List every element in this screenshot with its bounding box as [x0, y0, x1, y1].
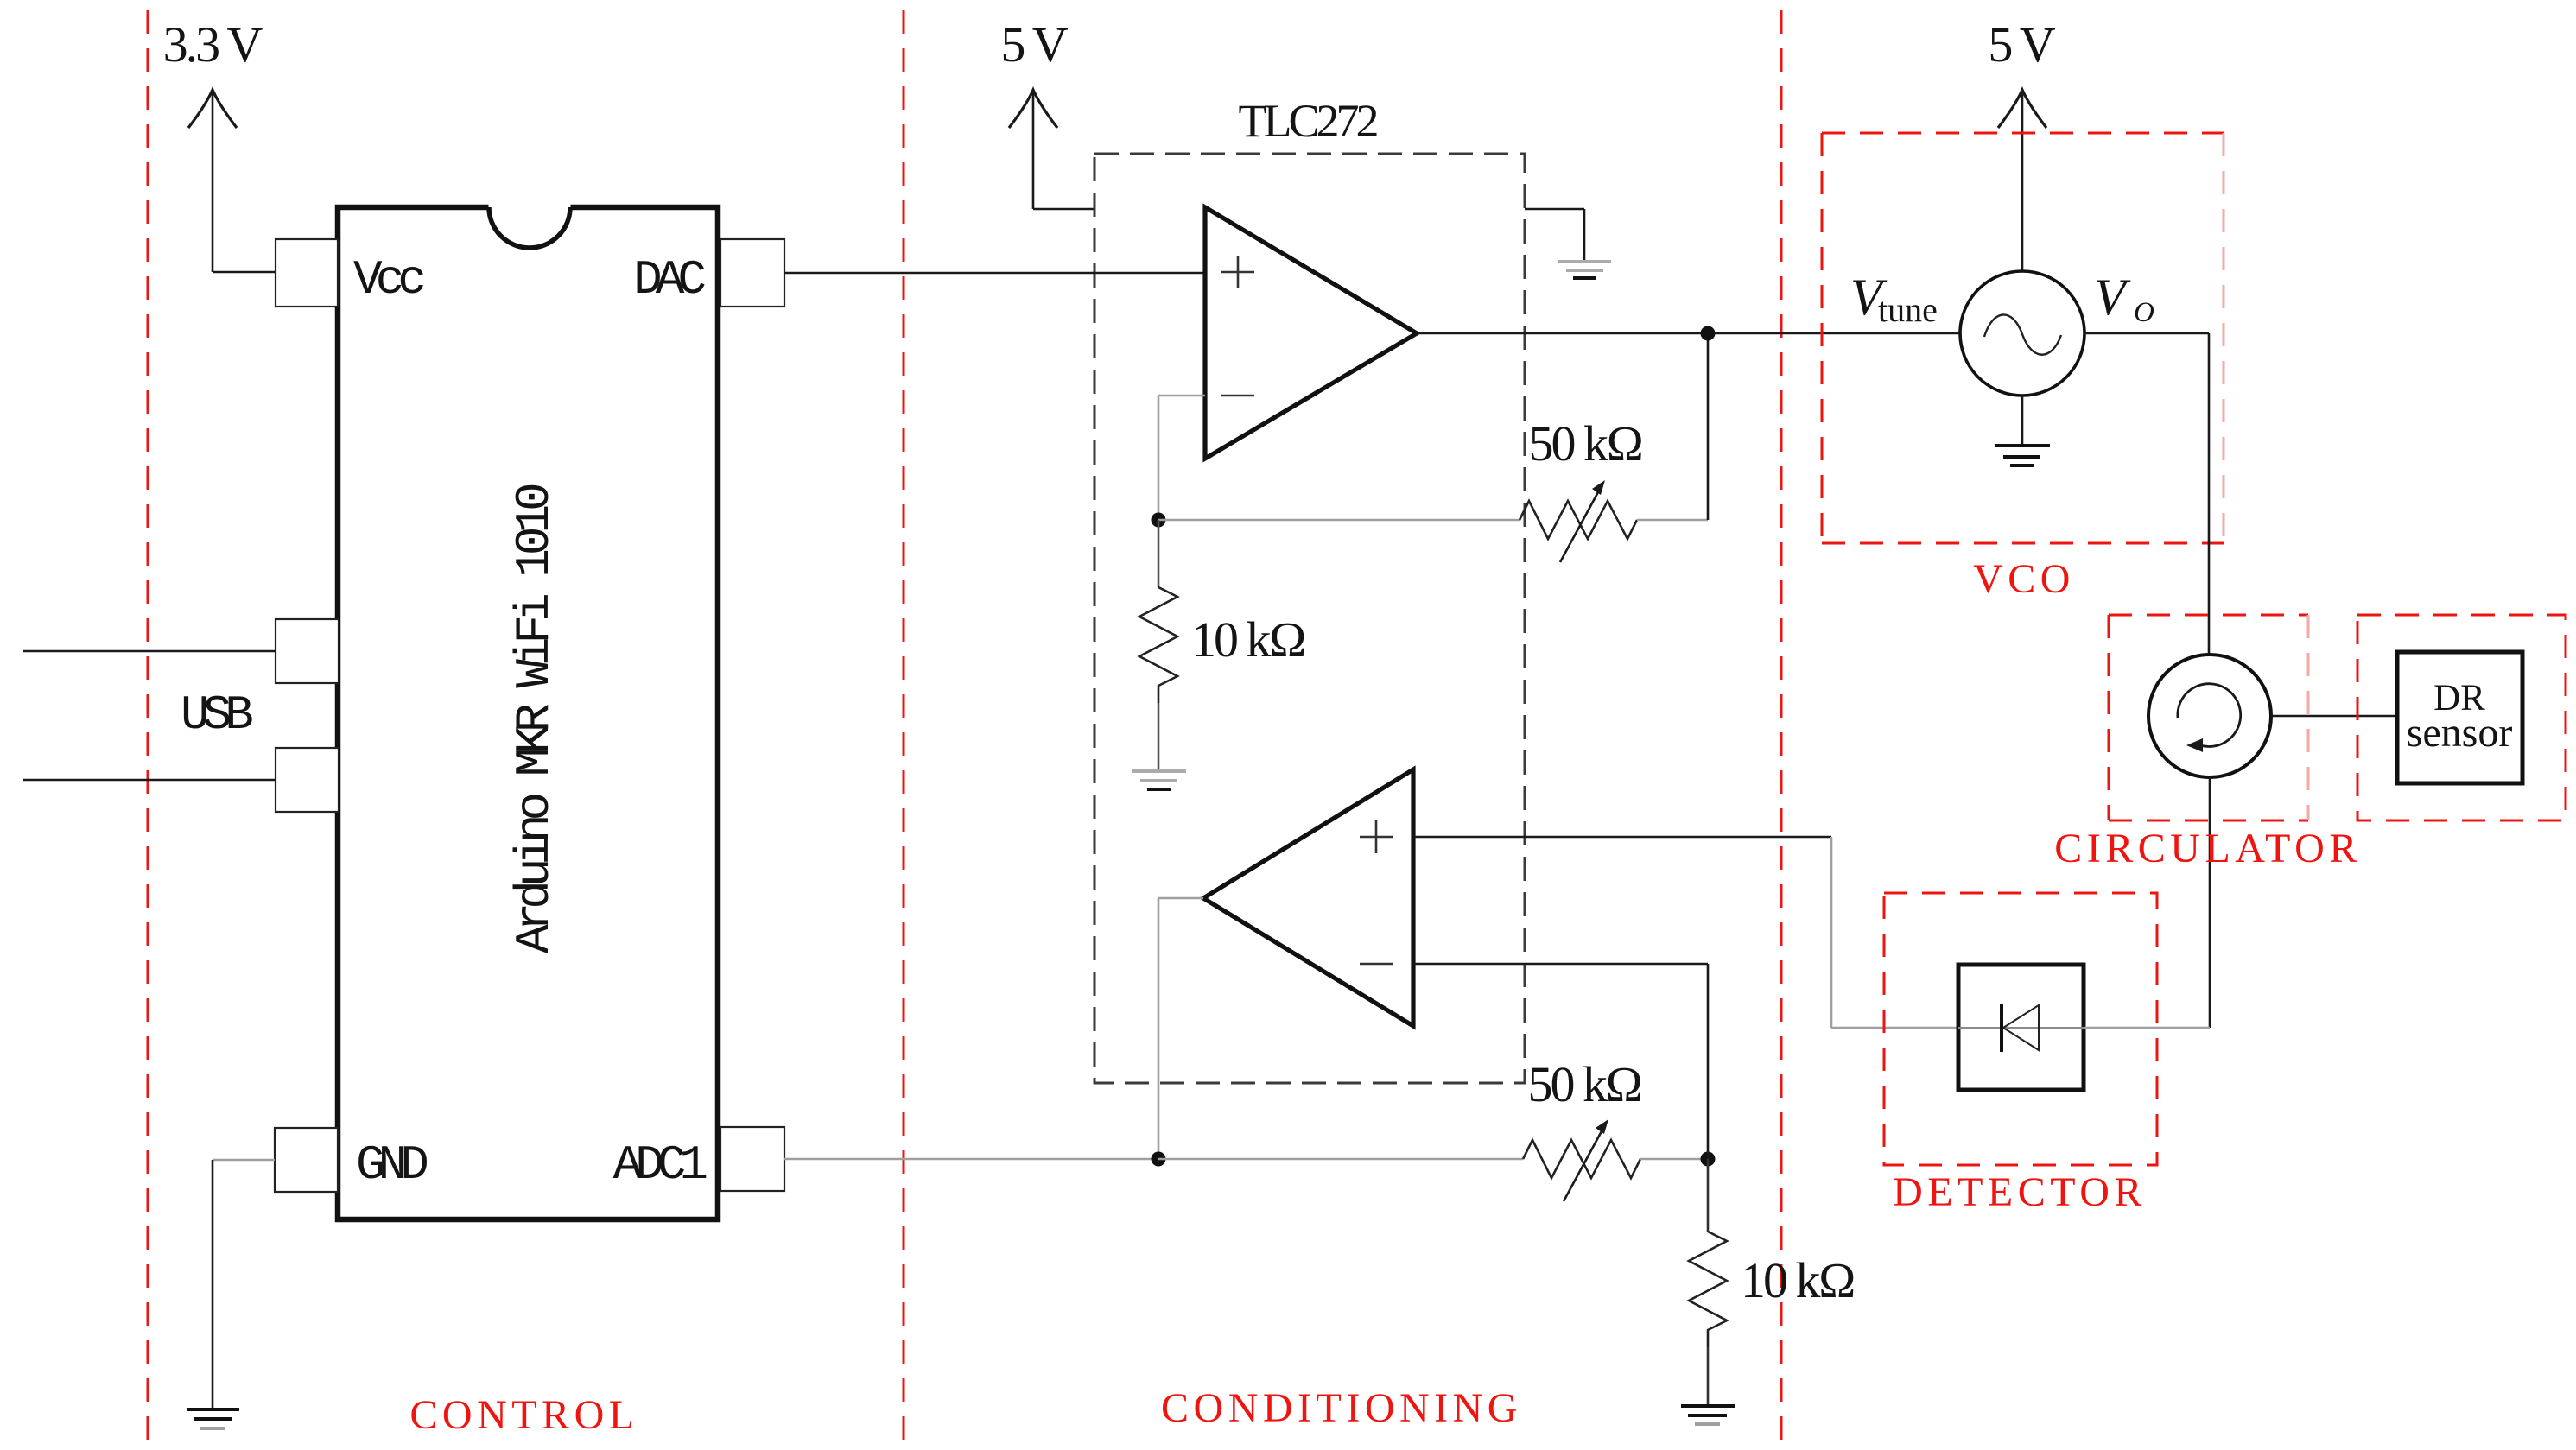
circulator rotation arrow — [2178, 684, 2241, 752]
svg-text:50 kΩ: 50 kΩ — [1528, 415, 1641, 472]
pin USB2 box — [276, 748, 339, 812]
VCO source circle G1 — [1960, 271, 2084, 396]
potentiometer R1 arrow — [1560, 480, 1605, 562]
svg-text:5 V: 5 V — [1000, 16, 1068, 73]
DR sensor dashed enclosure — [2357, 615, 2566, 820]
Arduino U1 body — [338, 207, 718, 1219]
svg-text:CONTROL: CONTROL — [409, 1392, 638, 1438]
svg-text:GND: GND — [356, 1137, 427, 1193]
svg-text:DETECTOR: DETECTOR — [1893, 1169, 2147, 1215]
svg-text:sensor: sensor — [2407, 710, 2513, 756]
wire VCO ground — [2021, 396, 2024, 446]
wire ADC1 to node C — [784, 1158, 1158, 1161]
DETECTOR dashed enclosure — [1884, 893, 2157, 1165]
detector diode symbol — [2002, 1004, 2039, 1052]
svg-text:CIRCULATOR: CIRCULATOR — [2054, 826, 2362, 871]
svg-text:USB: USB — [181, 687, 252, 743]
wire GND pin to ground — [213, 1160, 275, 1409]
wire U2A inverting input — [1158, 396, 1205, 520]
wire circulator to detector — [2209, 777, 2211, 1028]
wire VCO output to circulator — [2084, 333, 2209, 654]
ground symbol (VCO) — [1995, 446, 2050, 465]
VCO dashed enclosure — [1822, 133, 2224, 543]
op-amp U2A + marker — [1221, 256, 1254, 288]
svg-text:3.3 V: 3.3 V — [163, 16, 263, 73]
potentiometer R1 50k zigzag — [1520, 501, 1637, 539]
wire TLC272 V- to ground — [1525, 209, 1584, 262]
wire detector to circulator — [2084, 1027, 2210, 1029]
pin USB1 box — [276, 619, 339, 683]
potentiometer R3 arrow — [1564, 1119, 1608, 1201]
svg-text:V: V — [2094, 269, 2131, 326]
wire R1 to output node — [1637, 519, 1708, 522]
CIRCULATOR dashed enclosure — [2109, 615, 2308, 820]
svg-text:10 kΩ: 10 kΩ — [1191, 611, 1304, 668]
wire USB D+ — [23, 650, 276, 653]
wire Vcc to 3.3V rail — [213, 271, 276, 274]
wire U2B + input from detector — [1413, 837, 1958, 1028]
VCO sine symbol — [1984, 314, 2061, 354]
wire U2A output — [1417, 332, 1961, 335]
wire circulator to DR sensor — [2271, 715, 2397, 718]
ground symbol (R4) — [1681, 1406, 1735, 1424]
potentiometer R3 50k zigzag — [1523, 1140, 1640, 1178]
section divider line 3 (RF section boundary) — [1780, 10, 1783, 1442]
svg-text:TLC272: TLC272 — [1239, 95, 1378, 147]
net label VO — [2094, 269, 2154, 328]
wire DAC to op-amp U2A + input — [784, 272, 1205, 275]
svg-text:ADC1: ADC1 — [613, 1137, 707, 1193]
resistor R4 10k vertical — [1689, 1159, 1727, 1406]
pin GND box — [275, 1128, 338, 1192]
wire 5V to TLC272 supply — [1033, 208, 1094, 211]
ground symbol (TLC272) — [1558, 262, 1611, 278]
section divider line 2 (CONDITIONING left boundary) — [903, 10, 905, 1442]
wire R3 to node D — [1640, 1158, 1708, 1161]
wire U2B - input to node D — [1413, 964, 1708, 1159]
net label Vtune — [1850, 269, 1938, 329]
node C junction dot — [1152, 1152, 1166, 1167]
pin Vcc box — [276, 239, 338, 307]
wire node A to potentiometer R1 — [1158, 519, 1520, 522]
svg-text:5 V: 5 V — [1988, 16, 2055, 73]
svg-text:VCO: VCO — [1973, 556, 2075, 602]
power arrow 5V (VCO) — [1998, 90, 2046, 271]
op-amp U2B + marker — [1360, 820, 1393, 853]
svg-text:10 kΩ: 10 kΩ — [1741, 1252, 1854, 1308]
op-amp U2A — [1205, 207, 1417, 459]
node A junction dot — [1152, 513, 1166, 528]
ground symbol (control) — [187, 1409, 239, 1428]
pin DAC box — [720, 239, 784, 307]
ground symbol (R2) — [1132, 771, 1186, 789]
svg-text:O: O — [2134, 297, 2154, 328]
svg-text:Vcc: Vcc — [353, 252, 423, 307]
svg-text:DAC: DAC — [633, 252, 705, 307]
svg-text:50 kΩ: 50 kΩ — [1527, 1056, 1640, 1112]
wire output node down to R1 — [1707, 333, 1710, 520]
node D junction dot — [1701, 1152, 1716, 1167]
op-amp U2A - marker — [1221, 395, 1254, 397]
section divider line 1 (CONTROL left boundary) — [147, 10, 149, 1442]
svg-text:tune: tune — [1878, 290, 1938, 329]
op-amp U2B - marker — [1360, 963, 1393, 966]
svg-text:CONDITIONING: CONDITIONING — [1161, 1385, 1522, 1431]
IC notch — [489, 202, 571, 249]
detector wire through box — [1958, 1027, 2084, 1029]
circulator X1 circle — [2148, 655, 2271, 777]
power arrow 5V (conditioning) — [1009, 90, 1057, 209]
wire node C to potentiometer R3 — [1158, 1158, 1523, 1161]
wire U2B output to node C — [1158, 898, 1203, 1159]
power arrow 3.3V — [188, 90, 237, 272]
DR sensor label — [2407, 678, 2513, 756]
wire USB D- — [23, 779, 276, 782]
pin ADC1 box — [720, 1127, 784, 1191]
resistor R2 10k vertical — [1139, 520, 1177, 769]
DR sensor box — [2397, 652, 2522, 783]
op-amp U2B — [1203, 769, 1413, 1026]
detector box D1 — [1958, 965, 2084, 1090]
node B junction dot — [1701, 326, 1716, 341]
TLC272 IC dashed outline — [1094, 154, 1525, 1083]
svg-text:Arduino MKR WiFi 1010: Arduino MKR WiFi 1010 — [507, 484, 562, 953]
